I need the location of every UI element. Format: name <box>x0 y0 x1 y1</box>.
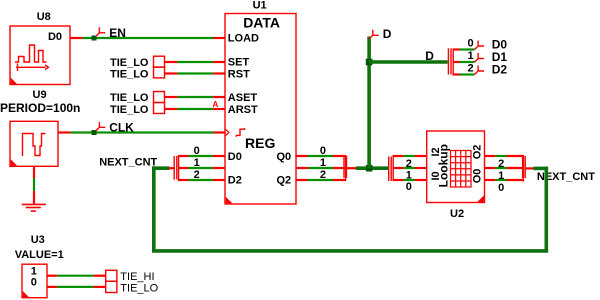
bus middle segment Q to U2 <box>356 166 388 170</box>
svg-text:DATA: DATA <box>243 14 280 30</box>
bus NEXT_CNT left corner <box>152 166 170 251</box>
svg-text:PERIOD=100n: PERIOD=100n <box>0 101 80 115</box>
TIE_LO terminal box at ASET <box>154 92 165 103</box>
wire TIE_LO to U1 ARST <box>165 108 226 110</box>
svg-text:2: 2 <box>467 62 473 74</box>
svg-text:1: 1 <box>467 50 473 62</box>
bus entry left of U1 <box>169 155 179 181</box>
U1 corner marker <box>226 197 233 204</box>
wire U3 pin1 to TIE_HI <box>47 275 106 277</box>
junction EN <box>92 36 97 41</box>
U8 corner marker <box>11 78 17 85</box>
svg-text:EN: EN <box>109 26 126 40</box>
TIE_LO terminal box <box>106 281 117 292</box>
wire U3 pin0 to TIE_LO <box>47 286 106 288</box>
wire bus bit0 to U2 I0 <box>393 179 427 181</box>
bus entry right of U1 <box>344 155 357 181</box>
svg-text:O0: O0 <box>472 169 484 184</box>
wire D bus bit2 <box>453 73 475 75</box>
svg-text:1: 1 <box>498 170 504 182</box>
register U1 <box>213 0 297 204</box>
U2 corner marker <box>477 195 484 202</box>
svg-text:1: 1 <box>406 170 412 182</box>
svg-text:1: 1 <box>31 266 37 278</box>
svg-text:RST: RST <box>228 68 250 80</box>
U8 time axis <box>16 64 49 72</box>
U2 lookup grid icon <box>451 151 472 188</box>
digital stimulus U8 <box>10 11 70 85</box>
U9 corner marker <box>11 159 17 165</box>
bus entry right of U2 <box>523 155 534 182</box>
svg-text:0: 0 <box>31 277 37 289</box>
wire TIE_LO to U1 ASET <box>165 96 226 98</box>
svg-text:U1: U1 <box>253 0 267 12</box>
wire CLK net from U9 to U1 clock pin <box>58 131 225 133</box>
wire bus bit1 to U2 I1 <box>393 167 427 169</box>
svg-text:ASET: ASET <box>228 92 258 104</box>
svg-text:1: 1 <box>194 157 200 169</box>
U8 stimulus waveform icon <box>15 45 47 62</box>
flag CLK <box>96 122 105 131</box>
ground <box>22 204 46 211</box>
wire D bus bit0 <box>453 48 475 50</box>
svg-text:D: D <box>425 49 434 63</box>
svg-text:0: 0 <box>467 37 473 49</box>
svg-text:O2: O2 <box>472 145 484 160</box>
wire bus bit2 to U2 I2 <box>393 155 427 157</box>
svg-text:D2: D2 <box>228 175 242 187</box>
svg-text:D2: D2 <box>492 63 508 77</box>
svg-text:0: 0 <box>406 181 412 193</box>
wire U1 Q2 to bus <box>296 179 346 181</box>
svg-text:VALUE=1: VALUE=1 <box>15 249 64 261</box>
svg-text:0: 0 <box>498 182 504 194</box>
svg-text:U9: U9 <box>33 89 47 101</box>
bus vertical D <box>367 37 371 169</box>
bus horizontal D to ripper <box>369 60 448 64</box>
flag D top <box>369 30 378 39</box>
wire D bus bit1 <box>453 61 475 63</box>
svg-text:U2: U2 <box>450 208 464 220</box>
svg-text:TIE_LO: TIE_LO <box>110 92 149 104</box>
junction CLK <box>92 130 97 135</box>
flag D0 <box>475 41 484 50</box>
svg-text:TIE_LO: TIE_LO <box>110 57 149 69</box>
U1 clock edge symbol <box>236 128 244 137</box>
junction bus T <box>366 165 373 172</box>
wire bus bit1 to U1 D1 <box>178 167 225 169</box>
wire U1 Q1 to bus <box>296 167 346 169</box>
svg-text:D0: D0 <box>228 151 242 163</box>
svg-text:D0: D0 <box>48 31 62 43</box>
svg-text:0: 0 <box>320 145 326 157</box>
svg-text:U3: U3 <box>31 234 45 246</box>
flag D1 <box>475 53 484 62</box>
svg-text:TIE_LO: TIE_LO <box>110 104 149 116</box>
svg-text:TIE_LO: TIE_LO <box>110 68 149 80</box>
svg-text:Q0: Q0 <box>277 151 292 163</box>
stim component U3 <box>15 234 64 298</box>
junction D bus <box>366 59 373 66</box>
bus entry D ripper <box>448 48 453 75</box>
lookup table U2 <box>427 131 485 220</box>
svg-text:CLK: CLK <box>109 121 134 135</box>
U3 corner marker <box>23 291 30 297</box>
TIE_HI terminal box <box>106 270 117 281</box>
svg-text:ARST: ARST <box>228 104 258 116</box>
TIE_LO terminal box at RST <box>154 67 165 78</box>
svg-text:A: A <box>213 100 219 109</box>
svg-text:D: D <box>383 27 392 41</box>
bus entry left of U2 <box>389 155 394 181</box>
flag EN <box>96 27 105 36</box>
svg-text:TIE_LO: TIE_LO <box>120 283 158 295</box>
wire U2 O2 to bus <box>484 155 523 157</box>
svg-text:Q2: Q2 <box>277 175 292 187</box>
U1 clock pin wedge <box>225 129 229 136</box>
svg-text:0: 0 <box>194 145 200 157</box>
wire U1 Q0 to bus <box>296 155 346 157</box>
svg-text:2: 2 <box>194 169 200 181</box>
bus NEXT_CNT right corner <box>533 167 548 253</box>
svg-text:2: 2 <box>406 158 412 170</box>
bus feedback bottom <box>152 249 548 253</box>
wire bus bit2 to U1 D2 <box>178 179 225 181</box>
wire EN net from U8 D0 to U1 LOAD <box>70 37 225 39</box>
U9 clock waveform icon <box>23 134 46 157</box>
wire bus bit0 to U1 D0 <box>178 155 225 157</box>
svg-text:REG: REG <box>245 135 275 151</box>
wire TIE_LO to U1 SET <box>165 61 226 63</box>
svg-text:2: 2 <box>320 169 326 181</box>
wire TIE_LO to U1 RST <box>165 72 226 74</box>
svg-text:Lookup: Lookup <box>437 144 451 187</box>
wire U9 ground lead <box>33 166 35 203</box>
digital clock U9 <box>0 89 80 166</box>
svg-text:U8: U8 <box>37 11 51 23</box>
svg-text:1: 1 <box>320 157 326 169</box>
svg-text:NEXT_CNT: NEXT_CNT <box>99 157 157 169</box>
flag D2 <box>475 66 484 75</box>
wire U2 O1 to bus <box>484 167 523 169</box>
wire U2 O0 to bus <box>484 179 523 181</box>
TIE_LO terminal box at ARST <box>154 103 165 114</box>
svg-text:SET: SET <box>228 57 250 69</box>
svg-text:2: 2 <box>498 158 504 170</box>
svg-text:LOAD: LOAD <box>228 32 259 44</box>
TIE_LO terminal box at SET <box>154 56 165 67</box>
svg-text:TIE_HI: TIE_HI <box>120 271 154 283</box>
